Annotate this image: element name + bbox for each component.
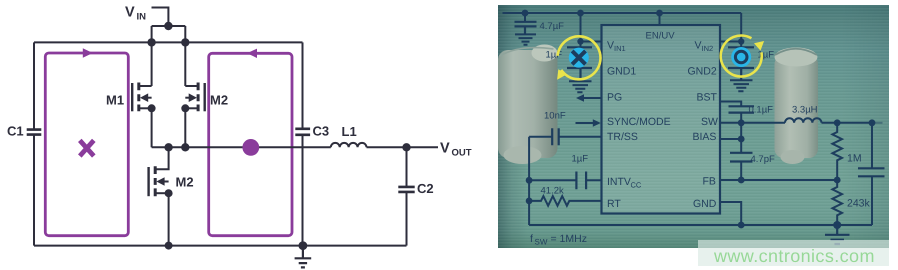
svg-text:C2: C2 [417, 181, 434, 196]
node M2 low source [165, 189, 173, 197]
capacitor 1uF INTVCC [576, 171, 586, 189]
svg-text:C3: C3 [313, 124, 330, 139]
PG arrow [582, 97, 601, 99]
svg-text:CC: CC [630, 180, 641, 189]
wire TR/SS [529, 136, 601, 138]
svg-text:4.7pF: 4.7pF [750, 154, 774, 165]
wire SW [719, 122, 784, 124]
capacitor COUT [857, 168, 883, 176]
wire FB [719, 179, 836, 181]
transistor M1 [132, 83, 151, 112]
loop 1 arrow [83, 48, 93, 57]
wire VOUT fade stub [871, 122, 881, 124]
wire VIN split bar [152, 25, 186, 27]
node VOUT junction [402, 143, 410, 151]
wire VOUT [821, 123, 871, 168]
wire M2 low source drop [168, 193, 170, 245]
resistor 41.2k [529, 196, 601, 206]
wire BST cap to SW [740, 113, 742, 153]
label 1M [846, 152, 861, 164]
node VIN2 stub [737, 38, 743, 44]
LEFT SCHEMATIC SVG [0, 0, 490, 270]
node GND drop [737, 222, 744, 229]
svg-text:V: V [440, 141, 450, 157]
svg-text:SYNC/MODE: SYNC/MODE [606, 116, 670, 128]
wire M1 source drop [151, 108, 153, 147]
svg-text:IN: IN [137, 12, 147, 23]
label VIN2 pin [694, 40, 713, 53]
label SYNC/MODE [606, 116, 670, 128]
svg-text:L1: L1 [342, 124, 357, 139]
node VIN1 on rail [577, 10, 584, 17]
resistor 1M [832, 123, 842, 180]
svg-text:3.3µH: 3.3µH [791, 105, 817, 116]
svg-text:0.1µF: 0.1µF [748, 105, 773, 116]
svg-text:GND2: GND2 [687, 66, 716, 78]
transistor M2 (top right) [185, 83, 204, 112]
wire M2 source drop [184, 108, 186, 147]
transistor M1 body arrow [140, 93, 148, 102]
current loop 1 (purple, left) [45, 53, 128, 236]
label 3.3uH [791, 105, 817, 116]
svg-text:BST: BST [696, 92, 717, 104]
label 1uF left [545, 50, 562, 61]
wire EN drop [658, 13, 660, 25]
flux X marker (into page) [80, 140, 94, 156]
label 4.7uF [539, 21, 564, 32]
label VOUT [440, 141, 472, 159]
svg-text:PG: PG [606, 92, 621, 104]
capacitor CIN1 (1uF) [566, 47, 591, 80]
label fsw [529, 233, 586, 246]
label INTVCC [606, 176, 641, 189]
node BIAS column [737, 136, 744, 143]
wire M1 drain drop [151, 26, 153, 86]
svg-text:V: V [694, 40, 701, 52]
wire VIN1 drop [579, 13, 581, 47]
node M2 source [181, 104, 189, 112]
transistor M2 (low side) [149, 147, 169, 196]
label M1 [106, 93, 124, 108]
label GND pin [692, 198, 716, 210]
main ground symbol [824, 225, 848, 244]
label M2 (top right) [210, 93, 228, 108]
wire right edge lower (from C3) [302, 135, 304, 246]
wire SW mid rail [152, 146, 438, 148]
svg-text:f: f [529, 233, 532, 245]
ground for 4.7uF [514, 34, 535, 44]
capacitor 4.7pF [729, 153, 751, 162]
label 0.1uF [748, 105, 773, 116]
label GND2 [687, 66, 716, 78]
label SW [700, 116, 717, 128]
node EN on rail [656, 10, 663, 17]
capacitor 0.1uF [728, 106, 753, 112]
svg-text:243k: 243k [846, 197, 870, 209]
wire left rail [528, 137, 530, 225]
node FB column [737, 177, 744, 184]
label M2 (low side) [176, 175, 194, 190]
label BST [696, 92, 717, 104]
label PG [606, 92, 621, 104]
node SW column [737, 119, 744, 126]
wire INTVCC [529, 179, 601, 181]
wire BST [719, 102, 740, 106]
label TR/SS [606, 131, 637, 143]
wire VIN top rail [502, 12, 741, 14]
node VOUT corner [868, 119, 875, 126]
node low source on bottom rail [165, 242, 173, 250]
svg-text:V: V [125, 5, 135, 21]
wire VIN2 drop [740, 13, 742, 47]
svg-text:1M: 1M [846, 152, 861, 164]
node M1 drain on rail [147, 38, 155, 46]
svg-text:BIAS: BIAS [692, 131, 716, 143]
label 10nF [543, 111, 565, 122]
label 1uF INTVCC [571, 153, 588, 164]
label 243k [846, 197, 870, 209]
SYNC arrow [575, 122, 593, 124]
svg-text:IN1: IN1 [613, 44, 625, 53]
svg-text:M2: M2 [210, 93, 228, 108]
svg-text:4.7µF: 4.7µF [539, 21, 564, 32]
node M1 source [148, 104, 156, 112]
transistor M2 low body arrow [156, 177, 164, 186]
wire outer left edge lower [33, 135, 35, 246]
svg-text:OUT: OUT [452, 148, 472, 159]
current loop 2 (purple, right) [209, 53, 292, 235]
wire VIN2 pin stub [719, 41, 740, 43]
label C2 [417, 181, 434, 196]
RIGHT PHOTO [498, 5, 889, 248]
capacitor C3 [295, 129, 310, 135]
svg-text:= 1MHz: = 1MHz [550, 233, 586, 245]
svg-text:FB: FB [702, 175, 715, 187]
node SW left [164, 143, 172, 151]
wire VIN feed [152, 8, 169, 27]
svg-text:V: V [606, 40, 613, 52]
node M2 drain on rail [181, 38, 189, 46]
capacitor C2 [406, 147, 408, 186]
ground [295, 246, 312, 268]
wire COUT to rail [870, 176, 872, 225]
capacitor CIN2 (1uF) [727, 47, 753, 79]
resistor 243k [832, 180, 842, 225]
svg-text:GND1: GND1 [606, 66, 635, 78]
label 41.2k [540, 185, 563, 196]
flux dot marker (hot loop node) [242, 139, 259, 156]
wire GND pin [719, 202, 740, 225]
node RT rail [525, 197, 532, 204]
svg-text:C1: C1 [7, 124, 24, 139]
capacitor body photo left [498, 45, 557, 164]
node FB divider [833, 177, 840, 184]
label C1 [7, 124, 24, 139]
node L to 1M [833, 119, 840, 126]
node ground junction [299, 241, 308, 250]
svg-text:1µF: 1µF [757, 50, 774, 61]
svg-text:SW: SW [534, 237, 547, 246]
svg-text:EN/UV: EN/UV [645, 31, 675, 42]
capacitor 4.7uF [514, 22, 536, 34]
wire bottom rail [34, 245, 407, 247]
label C3 [313, 124, 330, 139]
label BIAS [692, 131, 716, 143]
svg-text:M1: M1 [106, 93, 124, 108]
svg-text:INTV: INTV [606, 176, 630, 188]
capacitor 10nF [552, 128, 558, 145]
wire outer left edge upper [33, 42, 35, 129]
wire C_A drop [523, 13, 525, 21]
wire right edge upper (to C3) [302, 42, 304, 128]
label FB [702, 175, 715, 187]
svg-text:RT: RT [606, 198, 620, 210]
ground for CIN2 [729, 80, 751, 91]
wire M2 drain drop [184, 26, 186, 86]
svg-text:10nF: 10nF [543, 111, 565, 122]
transistor M2 body arrow [189, 93, 197, 102]
svg-text:SW: SW [700, 116, 717, 128]
node INTVCC rail [525, 177, 532, 184]
capacitor body photo right [774, 48, 817, 164]
wire BIAS [719, 138, 740, 140]
label GND1 [606, 66, 635, 78]
label VIN [125, 5, 146, 23]
flux out of page symbol (loop 2) [731, 47, 751, 67]
wire top rail VIN [34, 41, 303, 43]
svg-text:1µF: 1µF [571, 153, 588, 164]
wire bottom rail [529, 224, 872, 226]
wire VIN1 pin stub [580, 41, 601, 43]
loop 2 arrow [247, 49, 257, 58]
label VIN1 pin [606, 40, 625, 53]
watermark strip [698, 240, 889, 266]
ground for CIN1 [568, 81, 590, 92]
wire 4.7pF to FB [740, 161, 742, 179]
IC U1 outline [601, 25, 719, 213]
node C_A on rail [521, 10, 528, 17]
loop 1 yellow arrow circle [557, 36, 600, 79]
label 1uF right [757, 50, 774, 61]
loop 2 yellow arrow circle [720, 36, 761, 77]
label RT [606, 198, 620, 210]
label EN/UV [645, 31, 675, 42]
capacitor C1 [27, 130, 42, 135]
node VIN junction [164, 22, 172, 30]
inductor 3.3uH [784, 118, 820, 123]
inductor L1 [331, 143, 367, 147]
node VIN1 stub [577, 38, 583, 44]
label 4.7pF [750, 154, 774, 165]
node main ground [833, 221, 841, 229]
svg-text:IN2: IN2 [701, 44, 713, 53]
svg-text:M2: M2 [176, 175, 194, 190]
label L1 [342, 124, 357, 139]
svg-text:GND: GND [692, 198, 716, 210]
node SW right [181, 143, 189, 151]
svg-text:41.2k: 41.2k [540, 185, 563, 196]
svg-text:TR/SS: TR/SS [606, 131, 637, 143]
flux into page symbol (loop 1) [568, 48, 588, 68]
